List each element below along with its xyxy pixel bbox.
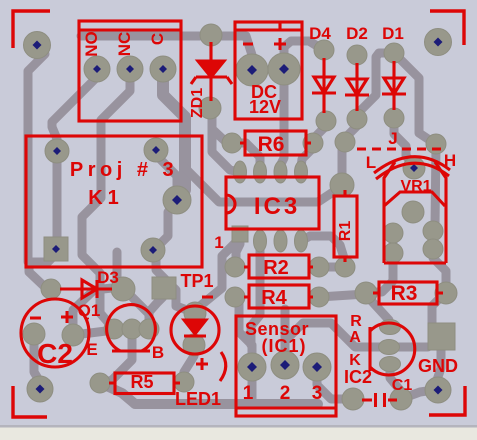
wire [232,139,246,148]
svg-text:J: J [388,129,397,148]
hole K1-2 [152,146,160,154]
hole sensor-2 [280,360,290,370]
hole K1-4 [52,245,60,253]
wire [156,150,177,200]
wire [433,146,436,233]
pad R3-2 [435,282,457,304]
hole bottom-right [434,386,443,395]
hole top-right [434,38,443,47]
svg-text:1: 1 [214,233,223,252]
svg-text:R5: R5 [130,372,153,392]
pad D2-1 [347,45,367,65]
wire [357,53,394,119]
wire [126,291,149,314]
hole sensor-1 [247,362,257,372]
pad VR1 wiper [403,157,425,179]
wire [28,47,45,262]
pad Q1-B [122,319,142,339]
pad R6-2 [303,133,323,153]
wire [195,240,238,312]
hole NO [93,65,101,73]
led LED1 symbol [184,320,206,336]
pad D2-2 [347,109,367,129]
pad VR1 center [402,201,424,223]
svg-text:R2: R2 [263,257,289,279]
wire [81,36,252,70]
transistor IC2 outline [370,323,415,375]
wire [319,263,345,272]
capacitor C1 symbol [362,393,397,407]
pad NO [84,56,110,82]
wire [401,390,434,399]
pad R2-1 [225,257,245,277]
pad Q1-E [104,319,124,339]
pad TP1 square [152,277,176,299]
pad GND square [428,323,455,350]
pad R4-2 [309,287,329,307]
wire [429,231,438,249]
node mounting hole bottom-right [425,377,451,403]
wire [184,167,342,202]
svg-text:L: L [366,153,376,172]
wire [73,288,123,335]
pad VR1 right-2 [423,239,443,259]
pad LED1-2 [183,334,205,356]
svg-text:R1: R1 [337,221,354,242]
svg-text:TP1: TP1 [180,271,213,291]
svg-text:NO: NO [82,31,101,57]
wire [248,367,257,404]
wire [82,69,130,329]
svg-text:D2: D2 [346,24,368,43]
resistor R2 outline [249,255,309,278]
resistor R3 outline [379,282,437,304]
svg-text:2: 2 [280,383,291,404]
pad IC3-3 [274,230,287,252]
pad sensor-1 [238,353,266,381]
sensor IC1 outline [236,316,336,416]
pad C1-1 [342,388,364,410]
pad D4-2 [316,111,336,131]
pad sensor-2 [271,351,299,379]
svg-text:R3: R3 [391,282,418,305]
hole sensor-3 [312,362,322,372]
svg-text:R4: R4 [261,287,287,309]
pad D1-1 [384,43,404,63]
hole bottom-left [36,385,45,394]
connector NO/NC/C outline [79,21,181,121]
svg-text:VR1: VR1 [400,178,431,195]
pad VR1 left-1 [383,223,403,243]
pad IC3-4 [295,230,308,252]
led LED1 outline [171,306,219,354]
hole DC minus [247,65,257,75]
pad Q1-C [139,319,159,339]
resistor R5 outline [115,373,174,394]
wire [236,238,240,267]
transistor Q1 outline [107,305,156,351]
wire [117,252,123,289]
board corner marker top-right [430,11,464,45]
polarity minus DC [243,43,253,46]
svg-text:IC3: IC3 [254,193,300,220]
pad IC2-K [380,357,401,372]
svg-text:K1: K1 [88,187,124,209]
pad VR1 right-1 [423,221,443,241]
wire [149,297,163,329]
svg-text:A: A [349,329,361,346]
pad ZD1-1 [200,24,222,46]
hole C [159,65,167,73]
pad IC3-2 [254,230,267,252]
board corner marker top-left [13,11,50,48]
resistor R6 outline [245,131,306,155]
svg-text:1: 1 [243,383,254,404]
pad IC2-A [379,340,400,355]
pad ZD1-2 [199,97,221,119]
pad K1-3 [163,186,191,214]
wire [235,297,252,367]
node via [335,132,355,152]
lead bend mark LED1 [220,352,226,381]
hole DC plus [279,64,289,74]
pad C2-1 [23,323,45,345]
board corner marker bottom-right [429,386,465,415]
wire [29,254,56,262]
pad IC3-6 [274,161,287,183]
svg-text:3: 3 [312,383,323,404]
diode D3 [60,280,112,298]
dashed adjust line of VR1 [357,148,447,151]
pad R1-1 [330,173,354,197]
pad VR1 left-2 [383,243,403,263]
pad sensor-3 [303,353,331,381]
wire [394,53,434,143]
polarity plus LED1 [196,358,208,370]
wire [389,233,398,253]
relay K1 outline [26,136,202,267]
capacitor C2 outline [21,299,89,367]
wire [284,41,322,69]
svg-text:NC: NC [115,32,134,57]
pad IC3-1 square [232,226,248,242]
svg-text:Q1: Q1 [78,301,101,320]
wire [394,118,413,164]
pad DC plus [268,53,300,85]
node mounting hole top-left [24,32,51,59]
svg-text:E: E [86,340,97,359]
wire [212,108,240,172]
wire [432,294,446,323]
zener ZD1 [191,42,232,101]
node via right [426,134,446,154]
wire [29,262,52,290]
svg-text:ZD1: ZD1 [189,88,206,118]
board corner marker bottom-left [13,386,47,417]
pad IC3-7 [254,161,267,183]
wire [301,143,313,168]
wire [156,200,195,313]
arc VR1 rotation [374,157,450,179]
pad DC minus [236,54,268,86]
wire [319,294,366,297]
node mounting hole bottom-left [27,376,53,402]
wire [390,364,401,399]
pad D3-2 [111,277,135,301]
wire [313,121,326,143]
svg-text:12V: 12V [249,97,281,117]
pad D1-2 [384,108,404,128]
wire [102,329,132,383]
polarity minus LED1 [202,296,213,299]
wire [251,241,260,345]
pad R6-1 [222,133,242,153]
pad IC3-8 [234,161,247,183]
pad R3-1 [355,282,377,304]
diode D1 [382,61,406,110]
hole top-left [33,41,42,50]
svg-text:R: R [350,313,362,330]
hole K1-5 [149,246,157,254]
hole K1-3 [172,195,182,205]
hole NC [126,65,134,73]
wire [281,69,284,172]
svg-text:C: C [148,33,167,45]
svg-text:H: H [444,151,456,170]
wire [317,367,353,399]
pad C [150,56,176,82]
node mounting hole top-right [425,29,452,56]
pad D3-1 [41,279,61,299]
hole K1-1 [53,147,61,155]
pad LED1-1 [184,302,206,324]
pad K1-1 [45,139,69,163]
pad D4-1 [314,40,334,60]
pad C1-2 [390,388,412,410]
wire [301,236,345,267]
wire [73,330,114,335]
svg-text:GND: GND [418,356,458,376]
wire [102,384,318,404]
resistor R1 outline [334,196,357,257]
pad NC [117,56,143,82]
power connector DC 12V outline [235,22,302,119]
wire [56,151,57,249]
svg-text:C2: C2 [37,338,73,369]
polarity plus DC [274,38,286,50]
pad R4-1 [225,287,245,307]
svg-text:C1: C1 [392,377,413,394]
svg-text:LED1: LED1 [175,389,221,409]
diode D2 [345,63,369,111]
pad K1-5 [141,238,165,262]
pad IC3-5 [295,161,308,183]
wire [285,309,389,365]
pad K1-4 square [44,237,68,261]
polarity plus C2 [61,311,73,323]
wire [368,253,393,292]
wire [342,119,357,185]
svg-text:B: B [152,343,164,362]
wire [52,71,97,151]
svg-text:IC2: IC2 [344,367,372,387]
svg-text:R6: R6 [258,133,285,156]
wire [433,249,446,293]
diode D4 [312,58,336,113]
wire [437,350,441,390]
pad C2-2 [62,324,84,346]
svg-text:D1: D1 [382,24,404,43]
hole VR1 wiper [410,164,418,172]
resistor R4 outline [249,285,309,308]
pad R1-2 [335,257,355,277]
wire [163,69,185,198]
pad IC2-R [380,320,401,335]
pad K1-2 [144,138,168,162]
svg-text:Proj # 3: Proj # 3 [70,159,178,181]
pad R2-2 [309,257,329,277]
trimmer VR1 outline [384,162,446,263]
wire [34,334,40,389]
op-amp IC3 outline [226,177,319,229]
polarity minus C2 [30,317,41,320]
wire [182,345,194,382]
svg-text:(IC1): (IC1) [262,336,307,356]
wire [366,295,390,327]
svg-text:D4: D4 [309,24,331,43]
svg-text:D3: D3 [97,268,119,287]
pad R5-1 [90,373,110,393]
wire [389,343,428,352]
bottom scan strip [0,427,477,440]
pad R5-2 [174,372,194,392]
wire [236,143,260,172]
